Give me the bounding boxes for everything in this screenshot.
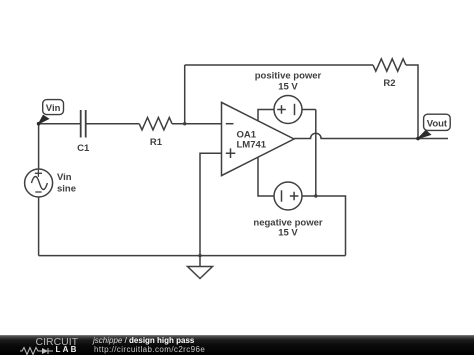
- label 15 V top: [278, 81, 298, 92]
- node junction at feedback tap: [183, 122, 186, 125]
- wire: C1 to R1: [86, 123, 139, 125]
- wire: R2 to output corner: [406, 65, 418, 139]
- op-amp minus sign: [226, 123, 234, 125]
- voltage source V1 positive power: [274, 96, 302, 124]
- svg-text:Vin: Vin: [46, 103, 61, 114]
- node junction supply rail: [314, 194, 317, 197]
- label C1: [77, 143, 90, 154]
- wire: R1 to op-amp inverting input: [172, 123, 222, 125]
- wire: bottom ground rail: [39, 255, 346, 257]
- label R2: [383, 78, 395, 89]
- wire: output with hop: [294, 133, 448, 138]
- label Vin source: [57, 172, 72, 183]
- label Vin flag: [46, 103, 61, 114]
- svg-text:positive power: positive power: [255, 71, 322, 82]
- label LM741: [237, 140, 267, 151]
- V2 bar symbol: [281, 190, 283, 201]
- resistor R2: [373, 59, 406, 71]
- svg-text:R1: R1: [150, 137, 163, 148]
- ground symbol: [188, 256, 213, 279]
- svg-text:15 V: 15 V: [278, 81, 298, 92]
- wire: V1 right to rail: [302, 109, 316, 111]
- V3 minus symbol: [35, 191, 41, 193]
- svg-text:C1: C1: [77, 143, 90, 154]
- wire: V2 right to rail corner: [302, 196, 346, 256]
- svg-text:15 V: 15 V: [278, 228, 298, 239]
- V1 plus symbol: [277, 105, 286, 114]
- op-amp U1 triangle: [222, 102, 295, 175]
- label R1: [150, 137, 163, 148]
- wire: non-inverting input: [200, 153, 222, 255]
- wire: feedback vertical left: [184, 65, 186, 124]
- label 15 V bottom: [278, 228, 298, 239]
- net flag Vin: [37, 100, 64, 126]
- op-amp plus sign: [226, 148, 236, 158]
- wire: source bottom to ground rail: [38, 197, 40, 256]
- wire: feedback top horizontal: [185, 64, 373, 66]
- voltage source V3 Vin sine: [25, 169, 53, 197]
- logo LAB: [56, 345, 79, 354]
- svg-text:sine: sine: [57, 184, 76, 195]
- footer credit line: [93, 336, 194, 345]
- wire: negative supply pin: [258, 157, 274, 196]
- V2 plus symbol: [290, 192, 299, 201]
- svg-text:Vout: Vout: [427, 118, 448, 129]
- V1 bar symbol: [294, 104, 296, 115]
- capacitor C1: [81, 110, 86, 138]
- label negative power: [253, 217, 322, 228]
- footer url line: [94, 345, 205, 354]
- logo CIRCUIT: [36, 336, 79, 348]
- svg-text:Vin: Vin: [57, 172, 72, 183]
- svg-text:LM741: LM741: [237, 140, 267, 151]
- footer bar: [0, 335, 474, 355]
- wire: input node to C1: [39, 123, 80, 125]
- resistor R1: [139, 118, 172, 130]
- label positive power: [255, 71, 322, 82]
- net flag Vout: [416, 114, 450, 140]
- label OA1: [237, 129, 257, 140]
- wire: node to source top: [38, 124, 40, 169]
- label Vout flag: [427, 118, 448, 129]
- V3 sine wave: [31, 177, 47, 190]
- wire: supply rail vertical: [315, 110, 317, 197]
- wire: positive supply pin: [258, 110, 274, 122]
- label sine: [57, 184, 76, 195]
- svg-text:R2: R2: [383, 78, 395, 89]
- voltage source V2 negative power: [274, 182, 302, 210]
- logo resistor-diode glyph: [20, 346, 56, 356]
- V3 plus symbol: [35, 170, 42, 177]
- node junction at Vout: [416, 137, 419, 140]
- node junction at ground: [198, 254, 201, 257]
